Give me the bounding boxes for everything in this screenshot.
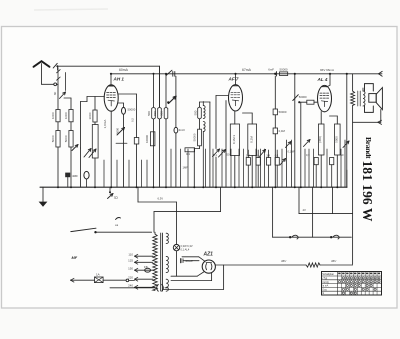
svg-text:F8: F8: [144, 265, 148, 269]
svg-text:50000: 50000: [192, 133, 196, 141]
svg-text:500: 500: [153, 111, 157, 116]
svg-text:50000: 50000: [299, 95, 307, 99]
svg-text:110: 110: [128, 252, 133, 256]
svg-text:0,1 AL4: 0,1 AL4: [181, 247, 190, 251]
svg-text:6,3V: 6,3V: [158, 197, 164, 201]
svg-text:30: 30: [53, 92, 57, 96]
svg-text:50000: 50000: [280, 68, 288, 72]
svg-text:150: 150: [128, 266, 133, 270]
svg-text:5000: 5000: [334, 136, 338, 143]
svg-text:Brandt: Brandt: [364, 137, 373, 159]
svg-text:240: 240: [128, 284, 133, 288]
svg-text:10000: 10000: [145, 135, 149, 143]
svg-text:67mA: 67mA: [242, 68, 252, 72]
svg-text:6mF: 6mF: [268, 68, 274, 72]
svg-text:96V 96mA: 96V 96mA: [320, 68, 334, 72]
svg-text:Gvg: Gvg: [322, 289, 327, 291]
svg-text:AF 7: AF 7: [228, 77, 239, 82]
svg-text:1,0mA: 1,0mA: [103, 120, 107, 129]
svg-text:220: 220: [128, 275, 133, 279]
svg-text:AZ1: AZ1: [203, 252, 214, 258]
svg-text:4V: 4V: [303, 208, 306, 212]
svg-text:5000: 5000: [51, 135, 55, 142]
svg-text:60mA: 60mA: [119, 68, 129, 72]
svg-text:500: 500: [147, 111, 151, 116]
svg-text:50000: 50000: [279, 110, 287, 114]
svg-text:4MF: 4MF: [72, 174, 78, 178]
svg-text:5000: 5000: [64, 135, 68, 142]
svg-text:0,1: 0,1: [213, 153, 217, 157]
svg-text:1000: 1000: [64, 112, 68, 119]
svg-text:0,4M: 0,4M: [279, 129, 286, 133]
svg-text:AH 1: AH 1: [113, 77, 125, 82]
svg-text:1MF: 1MF: [183, 166, 189, 170]
svg-text:500: 500: [193, 110, 197, 115]
svg-text:0,1M: 0,1M: [249, 136, 253, 143]
svg-text:AL 4: AL 4: [317, 77, 328, 82]
svg-text:125: 125: [128, 259, 133, 263]
svg-text:0,1MF: 0,1MF: [288, 150, 296, 154]
svg-text:Ua/Ug: Ua/Ug: [322, 282, 329, 284]
svg-text:0,3: 0,3: [306, 153, 310, 157]
svg-text:500: 500: [160, 111, 164, 116]
svg-text:5000: 5000: [116, 128, 120, 134]
svg-text:MF: MF: [72, 255, 78, 260]
svg-text:1000: 1000: [88, 112, 92, 119]
svg-text:vTyp: vTyp: [322, 278, 328, 280]
svg-text:3mO: 3mO: [179, 128, 186, 132]
svg-text:(350): (350): [318, 136, 322, 143]
svg-text:0,1M 3: 0,1M 3: [232, 135, 236, 145]
svg-text:0,5: 0,5: [131, 118, 135, 122]
svg-text:7Ω: 7Ω: [114, 196, 119, 200]
svg-text:0,3W 6,3V: 0,3W 6,3V: [181, 244, 193, 248]
svg-text:181 196 W: 181 196 W: [360, 161, 375, 222]
svg-text:1A: 1A: [96, 273, 100, 277]
svg-text:Schaltplan: Schaltplan: [322, 273, 334, 276]
svg-text:Ia mA: Ia mA: [322, 285, 328, 288]
svg-text:1000: 1000: [51, 112, 55, 119]
svg-text:ca: ca: [115, 223, 119, 227]
svg-text:50000: 50000: [128, 108, 136, 112]
